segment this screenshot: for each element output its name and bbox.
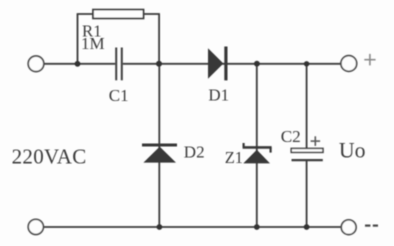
svg-text:220VAC: 220VAC (12, 145, 87, 169)
capacitor C2 (291, 148, 323, 160)
wire R1 top-left link (77, 13, 95, 15)
wire top rail right segment (123, 63, 341, 65)
zener Z1 (243, 143, 272, 163)
wire R1 top-right link (144, 13, 160, 15)
node dot F (Z1 bottom) (254, 224, 260, 230)
C2 polarity plus (311, 136, 321, 146)
svg-text:1M: 1M (81, 34, 105, 53)
wire R1 left riser (77, 14, 79, 64)
svg-text:D1: D1 (208, 85, 229, 104)
terminal top-left (28, 56, 44, 72)
svg-text:C2: C2 (281, 127, 301, 146)
output minus mark (365, 225, 378, 227)
terminal bottom-right (341, 220, 356, 235)
svg-text:C1: C1 (109, 86, 129, 105)
diode D2 (142, 145, 177, 163)
wire C2 branch lower (306, 160, 308, 227)
wire C2 branch upper (306, 64, 308, 149)
output plus mark (364, 54, 375, 66)
node dot E (D2 bottom) (157, 224, 163, 230)
node dot C (D1 out / Z1 top) (254, 61, 260, 67)
svg-text:D2: D2 (184, 143, 205, 162)
terminal top-right (341, 56, 357, 72)
node dot A (R1/C1 left) (75, 61, 81, 67)
svg-text:Z1: Z1 (225, 148, 243, 167)
svg-text:Uo: Uo (339, 139, 366, 163)
terminal bottom-left (28, 219, 43, 234)
diode D1 (208, 47, 226, 81)
node dot G (C2 bottom) (304, 224, 310, 230)
node dot B (C1 right / D2 top) (156, 61, 162, 67)
resistor R1 (93, 10, 144, 19)
wire R1 right riser (158, 14, 160, 64)
node dot D (C2 top) (304, 61, 309, 66)
wire Z1 branch (256, 64, 258, 227)
wire D2 branch (158, 64, 160, 227)
capacitor C1 (116, 48, 122, 81)
wire bottom rail (44, 226, 342, 228)
wire top rail left segment (44, 63, 115, 65)
